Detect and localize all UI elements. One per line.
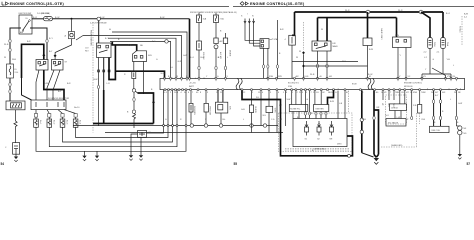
wire: thin gray dashed vertical xyxy=(92,22,94,133)
wire below box xyxy=(291,45,293,78)
svg-text:VSV EGR: VSV EGR xyxy=(209,106,211,115)
heavy wire: to distributor connector xyxy=(112,42,136,51)
svg-text:W–B: W–B xyxy=(310,74,315,76)
junction diamond xyxy=(42,54,45,57)
svg-text:ENGINE CONTROL: ENGINE CONTROL xyxy=(404,83,423,85)
three stub wires with labels xyxy=(241,14,260,47)
ground xyxy=(139,137,143,160)
svg-text:B-O: B-O xyxy=(201,57,205,59)
svg-text:ECM: ECM xyxy=(352,84,357,86)
ground xyxy=(14,154,18,162)
small component box xyxy=(266,91,276,133)
heavy wire columns to ground xyxy=(373,90,375,154)
svg-text:W–R: W–R xyxy=(398,10,403,12)
ground right xyxy=(458,135,462,159)
plain column xyxy=(411,91,413,120)
heavy wire loop upper left xyxy=(22,44,44,78)
wires: resistor to injectors xyxy=(36,110,76,114)
svg-text:MODULE: MODULE xyxy=(404,86,413,88)
svg-text:B-R: B-R xyxy=(280,29,284,31)
igniter box xyxy=(314,91,329,119)
svg-text:CHECK: CHECK xyxy=(391,108,399,110)
heavy drop from bus B xyxy=(396,18,398,37)
svg-text:ENGINE CONTROL(3S–GTE): ENGINE CONTROL(3S–GTE) xyxy=(250,2,305,6)
svg-text:2-2 C/OPN RELAY: 2-2 C/OPN RELAY xyxy=(90,22,107,25)
svg-text:G-R: G-R xyxy=(178,61,182,63)
sensor S1 xyxy=(421,12,435,74)
heavy shield wire left xyxy=(242,90,353,155)
svg-text:RLY: RLY xyxy=(85,50,89,52)
fusible link FL xyxy=(7,64,20,78)
connector circle xyxy=(165,40,168,43)
plain columns xyxy=(277,91,285,133)
injector No.2 xyxy=(47,117,52,127)
wire: switch left pin column xyxy=(10,28,21,101)
svg-text:W–R: W–R xyxy=(345,10,350,12)
wire: D1 left pin to resistor xyxy=(124,62,136,90)
fuse column 7.5A xyxy=(214,13,225,79)
relay R1 (EFI main) xyxy=(36,60,48,71)
svg-text:NOISE FIL.: NOISE FIL. xyxy=(290,109,301,111)
svg-text:W: W xyxy=(296,57,298,59)
junction line with connector circles xyxy=(73,124,278,127)
injector labels xyxy=(39,120,81,125)
svg-text:B-R: B-R xyxy=(27,41,31,43)
ignition switch SW1 xyxy=(19,13,33,34)
svg-text:C/O: C/O xyxy=(85,48,89,50)
distributor box xyxy=(279,113,353,152)
ECU pin labels xyxy=(163,78,457,94)
wire: switch right pin column xyxy=(30,28,47,60)
connector oval xyxy=(9,39,11,43)
svg-text:W: W xyxy=(299,51,301,53)
ECU strip inner pin ticks xyxy=(165,79,457,81)
connector oval xyxy=(373,116,375,120)
heavy bus A xyxy=(295,11,444,13)
wire: main bus from switch to right corner xyxy=(32,18,190,20)
dashed column xyxy=(348,91,350,113)
scattered wire code labels extra xyxy=(4,29,462,126)
condenser C1 xyxy=(5,143,20,155)
stub wires with labels xyxy=(381,91,394,108)
wires: injector return loops xyxy=(36,90,186,152)
wires: relay R3 pins xyxy=(97,58,110,127)
wire: heavy drop at x=188 to ECU xyxy=(189,19,191,79)
svg-text:MAIN: MAIN xyxy=(333,45,339,48)
svg-text:VSV: VSV xyxy=(395,35,400,37)
connector oval xyxy=(9,90,11,94)
svg-text:V-W: V-W xyxy=(287,99,291,101)
svg-text:B-W: B-W xyxy=(464,14,468,16)
connector box xyxy=(260,38,278,48)
svg-text:EFI: EFI xyxy=(333,43,337,45)
ground (main) xyxy=(374,155,380,165)
connector oval xyxy=(9,48,11,52)
svg-text:FROM POWER SOURCE SYSTEM (SEE: FROM POWER SOURCE SYSTEM (SEE PAGE 44) xyxy=(190,11,237,14)
ground xyxy=(95,151,99,161)
svg-text:Y-G: Y-G xyxy=(271,119,275,121)
wires: box to ECU xyxy=(263,48,270,78)
svg-text:B–W: B–W xyxy=(100,17,104,19)
wire column xyxy=(337,91,339,119)
svg-text:IGNITER: IGNITER xyxy=(316,109,325,111)
ignition coil box xyxy=(430,126,450,132)
sensor S2 xyxy=(437,12,450,74)
svg-text:THW: THW xyxy=(421,92,426,94)
svg-text:L-W: L-W xyxy=(397,117,401,119)
heavy shield drain column xyxy=(360,90,373,157)
svg-text:W-B: W-B xyxy=(342,61,347,63)
connector oval xyxy=(9,83,11,87)
column wires below ECU (mid) xyxy=(260,91,262,126)
ECU pin number labels texture xyxy=(166,75,461,94)
ground xyxy=(129,134,138,160)
heavy column to small box xyxy=(363,12,383,78)
wire: branch from igniter column to right xyxy=(136,91,155,123)
pickup coil G1 xyxy=(305,121,309,141)
dashed shield wire xyxy=(381,113,417,147)
heavy wire: relay right pin to bus B xyxy=(326,18,328,41)
distributor connector D1 xyxy=(133,51,153,62)
svg-text:G-W: G-W xyxy=(458,103,462,105)
svg-text:B–Y: B–Y xyxy=(105,38,109,40)
svg-text:BATT: BATT xyxy=(189,85,195,88)
dashed column with diamonds xyxy=(302,22,305,78)
junction wire upper xyxy=(292,61,358,63)
heavy wire: relay pin up-over to ECU xyxy=(109,45,165,80)
svg-text:ISC VALVE: ISC VALVE xyxy=(388,122,399,125)
svg-text:DIODE: DIODE xyxy=(229,50,231,57)
scattered wire color labels xyxy=(4,10,459,152)
svg-text:B–W: B–W xyxy=(55,17,59,19)
svg-text:IGN: IGN xyxy=(229,106,231,110)
wire: column into distributor right xyxy=(344,91,346,119)
svg-text:B-R: B-R xyxy=(128,45,132,47)
ground xyxy=(82,151,86,161)
heavy corner wire xyxy=(328,90,334,105)
svg-text:A/C: A/C xyxy=(220,40,224,43)
svg-text:2.0L(3S–GTE): 2.0L(3S–GTE) xyxy=(37,13,50,15)
svg-text:W-G: W-G xyxy=(161,73,166,75)
VSV box xyxy=(393,35,412,79)
wires: sensors to ECU xyxy=(422,68,451,78)
wire from loop to resistor strip xyxy=(22,78,32,100)
header left: ENGINE CONTROL (3S-GTE) xyxy=(0,2,229,7)
header right: ENGINE CONTROL (3S-GTE) xyxy=(233,2,474,7)
svg-text:G-W: G-W xyxy=(183,55,187,57)
svg-text:KNK: KNK xyxy=(413,92,418,94)
svg-text:B-W: B-W xyxy=(94,79,98,81)
svg-text:SOL.RES: SOL.RES xyxy=(193,106,195,115)
injector No.1 xyxy=(34,117,39,127)
svg-text:57: 57 xyxy=(467,162,471,166)
svg-text:W: W xyxy=(4,57,6,59)
svg-text:B–W: B–W xyxy=(368,74,372,76)
svg-text:B-W: B-W xyxy=(44,83,48,85)
resistor box column 2 xyxy=(204,91,211,126)
battery / junction block box xyxy=(6,101,25,110)
svg-text:G-O: G-O xyxy=(385,115,389,117)
fuse column side labels xyxy=(90,30,231,60)
column to noise filter circles xyxy=(455,91,460,126)
svg-text:54: 54 xyxy=(1,162,5,166)
svg-text:B-R: B-R xyxy=(67,83,71,85)
connector circle on bus A xyxy=(419,10,423,14)
EFI main relay xyxy=(312,18,338,51)
svg-text:A/C MG: A/C MG xyxy=(219,52,222,60)
component A (sensor box) xyxy=(55,20,74,60)
resistor box column 1 xyxy=(189,91,195,126)
svg-text:B–W: B–W xyxy=(160,17,164,19)
circuit opening relay R3 xyxy=(85,21,111,58)
svg-text:CHECK: CHECK xyxy=(254,106,256,114)
svg-text:(SHIELDED): (SHIELDED) xyxy=(314,149,326,151)
heavy wire relay to resistor strip xyxy=(44,70,64,100)
dashed shield box xyxy=(386,95,407,124)
svg-text:W-B: W-B xyxy=(362,119,367,121)
svg-text:IGN: IGN xyxy=(148,55,152,57)
wire below junction block xyxy=(15,110,17,121)
wires: relay to junction line xyxy=(304,51,368,78)
svg-text:THW: THW xyxy=(433,42,435,47)
svg-text:7.5A: 7.5A xyxy=(220,18,225,21)
svg-text:THA: THA xyxy=(446,42,449,47)
horizontal feed wires to corner xyxy=(76,32,187,78)
solenoid resistor strip xyxy=(31,98,70,110)
diode column xyxy=(220,31,228,79)
svg-text:STA: STA xyxy=(288,85,292,88)
svg-text:W–B: W–B xyxy=(4,44,9,46)
svg-text:+B +B1: +B +B1 xyxy=(189,83,197,85)
relay R2 xyxy=(52,60,68,71)
svg-text:IGN COIL: IGN COIL xyxy=(432,130,442,132)
connector circle on bus xyxy=(97,17,100,20)
svg-text:W-B: W-B xyxy=(12,59,17,61)
pickup coil G2 xyxy=(317,121,321,141)
svg-text:SPD: SPD xyxy=(278,76,283,78)
svg-text:No.10: No.10 xyxy=(74,107,80,109)
columns into distributor xyxy=(304,91,310,119)
svg-text:STA: STA xyxy=(269,75,273,78)
igniter column IGT xyxy=(127,89,136,128)
injector No.3 xyxy=(60,117,65,127)
connector on shield bottom wire xyxy=(348,154,351,157)
injector connector pins xyxy=(34,114,77,118)
junction dot on bus xyxy=(71,18,73,20)
heavy wire: relay R3 center pin down xyxy=(93,58,154,124)
heavy drop left end bus A xyxy=(292,12,295,35)
svg-text:B-W: B-W xyxy=(369,49,373,51)
svg-text:55: 55 xyxy=(234,162,238,166)
svg-text:W: W xyxy=(176,76,178,78)
heavy bus B xyxy=(318,17,397,19)
svg-text:FROM STARTER: FROM STARTER xyxy=(90,30,93,46)
svg-text:W: W xyxy=(321,29,323,31)
svg-text:CALIF. ONLY: CALIF. ONLY xyxy=(380,28,383,41)
svg-text:W: W xyxy=(318,124,320,126)
svg-text:ENGINE CONTROL(3S–GTE): ENGINE CONTROL(3S–GTE) xyxy=(10,2,65,6)
svg-text:W: W xyxy=(280,119,282,121)
ignition coil box xyxy=(216,91,231,126)
wires: relay pins to resistor strip xyxy=(36,70,60,100)
connector oval xyxy=(46,39,48,43)
ECU top pins xyxy=(164,78,458,80)
noise filter box xyxy=(289,91,308,119)
svg-text:B–O: B–O xyxy=(446,13,450,15)
svg-text:DIST.: DIST. xyxy=(337,144,342,146)
oxygen sensor xyxy=(138,131,152,138)
svg-text:B–R: B–R xyxy=(33,17,37,19)
noise squiggle xyxy=(14,121,17,128)
labelled box (check connector) xyxy=(386,91,407,126)
svg-text:B–O: B–O xyxy=(190,57,194,59)
svg-text:L-R: L-R xyxy=(107,83,111,85)
svg-text:E01 E02 E1: E01 E02 E1 xyxy=(288,83,300,85)
svg-text:TO A/C: TO A/C xyxy=(459,26,462,33)
resistor box column xyxy=(249,91,256,133)
box on drop xyxy=(285,35,296,45)
svg-text:B-W: B-W xyxy=(330,101,334,103)
svg-text:ELS: ELS xyxy=(305,76,309,78)
connector circle on bus A xyxy=(366,10,370,14)
shield dashed wires xyxy=(285,149,350,151)
noise filter capacitors xyxy=(458,126,467,135)
resistor column with dashed link xyxy=(418,91,422,124)
svg-text:AM: AM xyxy=(20,31,23,34)
columns to ignition coil xyxy=(432,91,441,127)
injector No.4 xyxy=(73,117,78,127)
pickup coil NE xyxy=(330,121,334,141)
fuse column 15A xyxy=(197,13,207,79)
junction diamond xyxy=(54,54,57,57)
long lower junction wire xyxy=(105,132,283,134)
dashed stub right edge xyxy=(459,16,463,45)
svg-text:B–Y: B–Y xyxy=(49,38,53,40)
svg-text:A/C: A/C xyxy=(296,75,300,78)
ECU connector strip xyxy=(160,78,465,89)
wire: D1 right pin down xyxy=(143,62,145,95)
wire: pin column xyxy=(276,20,281,78)
svg-text:VTA: VTA xyxy=(447,75,451,78)
svg-text:T-VIS: T-VIS xyxy=(274,108,276,114)
fuse EFI 15A F1 xyxy=(42,12,53,21)
ECU bottom pins xyxy=(164,89,457,91)
svg-text:(SHIELDED): (SHIELDED) xyxy=(391,145,403,147)
